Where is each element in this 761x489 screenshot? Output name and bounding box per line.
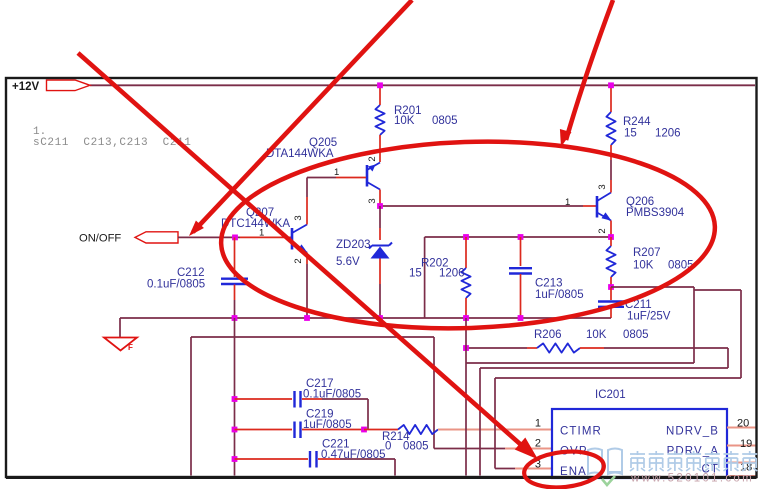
svg-text:15: 15 <box>409 268 422 280</box>
svg-text:2: 2 <box>535 438 541 450</box>
resistor R201 <box>375 85 457 162</box>
IC201 pin 18 <box>727 462 757 474</box>
svg-text:3: 3 <box>367 198 378 203</box>
zener diode ZD203 <box>336 206 392 318</box>
svg-text:R206: R206 <box>534 329 562 341</box>
wire net from R207/C211 to right routing <box>466 287 694 363</box>
svg-text:0.47uF/0805: 0.47uF/0805 <box>321 449 386 461</box>
annotation big ellipse <box>218 133 718 336</box>
node junctions on y=237 net <box>463 234 469 240</box>
wire R206 left vertical <box>465 318 467 476</box>
svg-text:DTA144WKA: DTA144WKA <box>266 148 334 160</box>
IC201 pin 19 <box>727 438 757 450</box>
svg-text:1: 1 <box>334 167 339 178</box>
wire right routing loop 2 <box>480 348 728 476</box>
resistor R206 <box>466 329 728 353</box>
svg-text:DTC144WKA: DTC144WKA <box>221 218 290 230</box>
svg-text:CTIMR: CTIMR <box>560 426 602 438</box>
svg-text:C213: C213 <box>535 278 563 290</box>
svg-text:0: 0 <box>385 441 391 453</box>
svg-text:www.520101.com: www.520101.com <box>630 473 754 485</box>
resistor R214 <box>361 425 552 453</box>
watermark book icon <box>588 449 622 475</box>
svg-text:0.1uF/0805: 0.1uF/0805 <box>147 279 205 291</box>
svg-text:2: 2 <box>367 156 378 161</box>
capacitor C211 <box>598 287 671 323</box>
svg-text:10K: 10K <box>394 115 415 127</box>
svg-text:NDRV_B: NDRV_B <box>666 426 719 438</box>
wire right routing loop 3 (ENA) <box>495 290 741 469</box>
IC201 pin 17 stub <box>727 475 757 477</box>
connector +12V <box>12 80 90 93</box>
wire Q206 emitter net y=237 <box>425 237 611 318</box>
connector ON/OFF <box>79 232 178 245</box>
watermark green check <box>602 476 615 485</box>
svg-text:1uF/25V: 1uF/25V <box>627 311 671 323</box>
wire OVP routing (left) <box>191 337 434 476</box>
svg-text:F: F <box>128 343 133 352</box>
annotation small ellipse around ENA <box>522 448 605 489</box>
capacitor C221 <box>232 439 395 476</box>
svg-text:R244: R244 <box>623 116 651 128</box>
capacitor C219 <box>232 409 364 439</box>
svg-text:10K: 10K <box>633 260 654 272</box>
capacitor C212 <box>147 237 248 318</box>
wire Q207 collector to Q205 base <box>307 178 336 198</box>
svg-text:IC201: IC201 <box>595 389 626 401</box>
svg-text:sC211 C213,C213 C211: sC211 C213,C213 C211 <box>33 137 191 149</box>
svg-text:2: 2 <box>597 228 608 233</box>
svg-text:1: 1 <box>565 197 570 208</box>
node Q205 collector junction <box>377 203 383 209</box>
node junction C212/ON-OFF <box>232 235 238 241</box>
annotation diagonal line to ENA <box>78 53 538 459</box>
node R206 left junction <box>463 345 469 351</box>
annotation diagonal line to ON/OFF <box>189 0 412 236</box>
svg-text:20: 20 <box>737 418 749 430</box>
svg-text:15: 15 <box>624 128 637 140</box>
svg-text:1: 1 <box>535 418 541 430</box>
annotation curved arrow to ellipse <box>560 0 613 147</box>
wire vertical C217 group feed <box>234 318 236 476</box>
svg-text:0805: 0805 <box>403 441 429 453</box>
svg-text:+12V: +12V <box>12 81 40 93</box>
svg-text:0805: 0805 <box>432 115 458 127</box>
svg-text:3: 3 <box>597 184 608 189</box>
wire ON/OFF to Q207 base <box>178 236 291 238</box>
wire ENA pin net <box>495 468 552 470</box>
resistor R202 <box>409 237 471 318</box>
resistor R244 <box>606 85 680 180</box>
op-amp IC201 box <box>552 389 727 478</box>
IC201 right pin labels <box>666 426 719 476</box>
wire ground bus y=318 <box>120 317 611 319</box>
svg-text:1206: 1206 <box>439 268 465 280</box>
wire OVP pin net <box>434 448 552 450</box>
svg-text:19: 19 <box>740 438 752 450</box>
transistor Q206 <box>565 180 685 237</box>
gray note text <box>33 126 191 149</box>
watermark chinese text <box>630 451 757 471</box>
svg-text:0805: 0805 <box>623 329 649 341</box>
IC201 pin numbers left <box>535 418 541 471</box>
capacitor C217 <box>232 378 368 430</box>
svg-text:3: 3 <box>293 215 304 220</box>
wire +12V rail <box>90 84 755 86</box>
svg-text:C212: C212 <box>177 267 205 279</box>
svg-text:0.1uF/0805: 0.1uF/0805 <box>303 389 361 401</box>
wire Q205 collector net to Q206 base <box>380 205 596 207</box>
svg-text:ON/OFF: ON/OFF <box>79 233 121 245</box>
transistor Q205 <box>266 137 380 206</box>
svg-text:ZD203: ZD203 <box>336 239 371 251</box>
ground symbol <box>104 318 137 352</box>
IC201 left pin labels <box>560 426 602 479</box>
IC201 pin 20 <box>727 418 757 430</box>
svg-text:1uF/0805: 1uF/0805 <box>303 419 352 431</box>
node junctions on ground bus <box>232 315 238 321</box>
node rail junctions <box>377 82 383 88</box>
svg-text:1206: 1206 <box>655 128 681 140</box>
transistor Q207 <box>221 197 308 318</box>
svg-text:10K: 10K <box>586 329 607 341</box>
node R207/C211 junction <box>608 284 614 290</box>
svg-text:5.6V: 5.6V <box>336 256 360 268</box>
svg-text:2: 2 <box>293 258 304 263</box>
resistor R207 <box>606 237 693 287</box>
capacitor C213 <box>509 237 584 318</box>
svg-text:PMBS3904: PMBS3904 <box>626 207 685 219</box>
svg-text:1uF/0805: 1uF/0805 <box>535 289 584 301</box>
svg-text:R207: R207 <box>633 247 661 259</box>
